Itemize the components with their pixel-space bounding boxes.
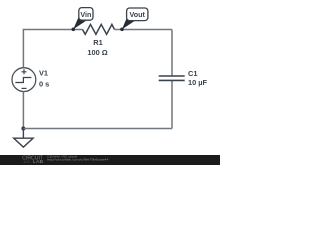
voltage source V1 [12, 68, 36, 92]
svg-text:0 s: 0 s [39, 80, 49, 89]
wire: right vertical lower (bottom rail up to C1 bottom plate) [171, 80, 173, 128]
svg-text:V1: V1 [39, 68, 48, 77]
watermark CircuitLab logo [22, 155, 43, 164]
svg-text:100 Ω: 100 Ω [87, 48, 107, 57]
svg-text:LAB: LAB [33, 159, 44, 164]
wire: bottom horizontal (junction to right rail) [23, 128, 172, 130]
svg-text:http//circuitlab.com/c/9fe79b6: http//circuitlab.com/c/9fe79b6caa44 [47, 158, 109, 162]
wire: top-right horizontal (Vout node to corner) [122, 29, 172, 31]
svg-text:Vin: Vin [80, 10, 91, 19]
watermark bar [0, 155, 220, 165]
node Vout tail [122, 18, 136, 30]
node Vin anchor dot [72, 28, 76, 32]
node: junction dot [21, 127, 25, 131]
svg-text:-\/\/-: -\/\/- [22, 160, 31, 164]
wire: left vertical (top corner down to V1 top) [22, 30, 24, 68]
node Vout anchor dot [120, 28, 124, 32]
svg-text:R1: R1 [93, 38, 102, 47]
node Vin tail [73, 18, 87, 30]
wire: V1 bottom to ground junction [22, 92, 24, 129]
wire: top-left horizontal (corner to Vin node) [23, 29, 73, 32]
wire: right vertical upper (C1 top plate up to top corner) [171, 30, 173, 77]
svg-text:Vout: Vout [129, 10, 145, 19]
capacitor C1 [159, 76, 185, 80]
resistor R1 [73, 24, 122, 34]
ground [14, 129, 33, 148]
node Vin bubble [79, 8, 93, 21]
svg-text:10 µF: 10 µF [188, 78, 208, 87]
node Vout bubble [127, 8, 148, 21]
